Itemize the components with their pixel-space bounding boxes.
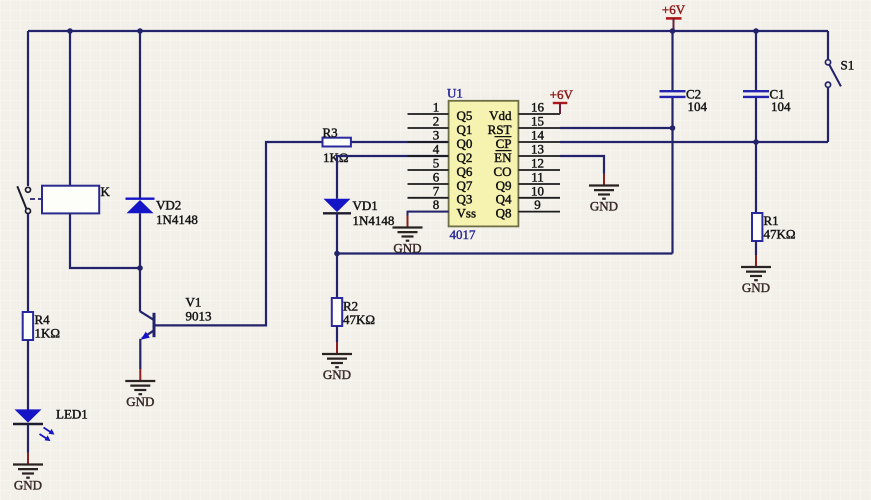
pin 8 bbox=[408, 197, 449, 212]
svg-text:Q2: Q2 bbox=[457, 150, 473, 165]
wire rail to S1 bbox=[827, 31, 829, 60]
wire contact to R4 bbox=[27, 214, 29, 313]
svg-text:16: 16 bbox=[531, 100, 545, 115]
svg-text:47KΩ: 47KΩ bbox=[343, 312, 375, 327]
node rail-C2 bbox=[670, 28, 676, 34]
relay contact switch bbox=[17, 186, 42, 213]
pin 4 bbox=[408, 142, 449, 157]
pin 15 bbox=[518, 114, 560, 129]
wire pin15 RST to C2 bbox=[560, 127, 673, 129]
wire pin14 CP to S1 bbox=[560, 141, 828, 143]
svg-text:13: 13 bbox=[531, 142, 544, 157]
svg-text:Q9: Q9 bbox=[496, 178, 512, 193]
svg-text:U1: U1 bbox=[447, 86, 463, 101]
svg-text:9: 9 bbox=[534, 197, 541, 212]
wire V1 emitter to ground bbox=[139, 339, 141, 369]
wire relay K bottom bbox=[70, 213, 140, 268]
node rail-C1 bbox=[753, 28, 759, 34]
wire pin8 Vss to ground bbox=[408, 212, 449, 216]
ground EN bbox=[589, 174, 619, 214]
wire rail to VD2 bbox=[139, 31, 141, 199]
svg-text:4: 4 bbox=[433, 142, 440, 157]
wire VD2 to node bbox=[139, 213, 141, 268]
power +6V main bbox=[662, 2, 686, 31]
node rail-B bbox=[137, 28, 143, 34]
svg-text:CO: CO bbox=[493, 164, 511, 179]
wire R2 to ground bbox=[336, 326, 338, 342]
svg-text:14: 14 bbox=[531, 128, 545, 143]
svg-text:9013: 9013 bbox=[186, 309, 212, 324]
pin 1 bbox=[408, 100, 449, 115]
wire pin4 to VD1 bbox=[337, 156, 449, 199]
svg-text:CP: CP bbox=[496, 136, 512, 151]
svg-text:Q3: Q3 bbox=[457, 192, 473, 207]
pin 6 bbox=[408, 170, 449, 185]
pin 5 bbox=[408, 156, 449, 171]
svg-text:GND: GND bbox=[126, 394, 154, 409]
capacitor C1 bbox=[743, 31, 791, 142]
wire node to R2 bbox=[336, 254, 338, 299]
ground Vss bbox=[393, 216, 423, 256]
pin 7 bbox=[408, 183, 449, 198]
svg-text:1KΩ: 1KΩ bbox=[35, 325, 61, 340]
svg-text:Q6: Q6 bbox=[457, 164, 473, 179]
ground R1 bbox=[741, 255, 771, 295]
svg-text:VD1: VD1 bbox=[353, 198, 378, 213]
svg-text:Q4: Q4 bbox=[496, 192, 512, 207]
svg-text:+6V: +6V bbox=[550, 87, 574, 102]
wire VD1 to node R2 bbox=[336, 213, 338, 253]
svg-text:Q5: Q5 bbox=[457, 108, 473, 123]
node CP-C1 bbox=[753, 139, 759, 145]
svg-text:1N4148: 1N4148 bbox=[156, 212, 198, 227]
wire R1 to ground bbox=[755, 241, 757, 255]
pin 13 bbox=[518, 142, 560, 157]
resistor R4 bbox=[23, 312, 60, 340]
svg-text:104: 104 bbox=[771, 99, 791, 114]
pin 14 bbox=[518, 128, 560, 143]
svg-text:7: 7 bbox=[433, 183, 440, 198]
node rail-A bbox=[67, 28, 73, 34]
svg-text:12: 12 bbox=[531, 156, 544, 171]
wire left vertical to contact bbox=[27, 31, 29, 186]
svg-text:GND: GND bbox=[742, 280, 770, 295]
switch S1 bbox=[825, 57, 854, 87]
wire top +6V rail bbox=[28, 30, 828, 32]
resistor R3 bbox=[323, 125, 351, 165]
svg-text:Q0: Q0 bbox=[457, 136, 473, 151]
svg-text:1: 1 bbox=[433, 100, 440, 115]
relay K coil bbox=[42, 184, 111, 213]
resistor R2 bbox=[332, 298, 375, 327]
LED LED1 bbox=[13, 407, 88, 442]
pin 9 bbox=[518, 197, 560, 212]
svg-text:Q7: Q7 bbox=[457, 178, 473, 193]
svg-text:+6V: +6V bbox=[662, 2, 686, 17]
svg-text:EN: EN bbox=[494, 150, 512, 165]
wire V1 base to R3 bbox=[154, 142, 323, 325]
wire pin13 EN to ground bbox=[560, 156, 604, 174]
transistor V1 bbox=[140, 295, 212, 340]
svg-text:VD2: VD2 bbox=[156, 198, 181, 213]
pin 10 bbox=[518, 183, 560, 198]
ground V1 bbox=[125, 369, 155, 409]
pin name CP bbox=[495, 136, 512, 151]
svg-text:LED1: LED1 bbox=[56, 407, 88, 422]
pin name EN bbox=[494, 150, 512, 165]
svg-text:5: 5 bbox=[433, 156, 440, 171]
svg-text:Vss: Vss bbox=[457, 205, 477, 220]
power +6V at pin16 bbox=[550, 87, 574, 114]
svg-text:RST: RST bbox=[488, 122, 512, 137]
svg-text:S1: S1 bbox=[841, 57, 855, 72]
svg-text:1N4148: 1N4148 bbox=[353, 213, 395, 228]
svg-text:R3: R3 bbox=[323, 125, 338, 140]
svg-text:GND: GND bbox=[590, 199, 618, 214]
wire C1 node to R1 bbox=[755, 142, 757, 213]
wire R3 to pin3 bbox=[351, 141, 449, 143]
svg-text:4017: 4017 bbox=[450, 227, 477, 242]
svg-text:V1: V1 bbox=[186, 295, 202, 310]
wire LED1 to ground bbox=[27, 425, 29, 453]
pin 16 bbox=[518, 100, 560, 115]
diode VD1 bbox=[323, 198, 394, 228]
ground LED bbox=[13, 453, 43, 493]
svg-text:104: 104 bbox=[688, 99, 708, 114]
capacitor C2 bbox=[660, 31, 708, 254]
pin 11 bbox=[518, 170, 560, 185]
svg-text:2: 2 bbox=[433, 114, 440, 129]
svg-text:11: 11 bbox=[531, 170, 544, 185]
pin 2 bbox=[408, 114, 449, 129]
node R2 top bbox=[334, 251, 340, 257]
pin 3 bbox=[408, 128, 449, 143]
svg-text:K: K bbox=[101, 184, 111, 199]
svg-text:GND: GND bbox=[393, 241, 421, 256]
svg-text:Vdd: Vdd bbox=[489, 108, 512, 123]
IC U1 body bbox=[447, 86, 518, 243]
svg-text:8: 8 bbox=[433, 197, 440, 212]
svg-text:47KΩ: 47KΩ bbox=[764, 227, 796, 242]
pin 12 bbox=[518, 156, 560, 171]
svg-text:6: 6 bbox=[433, 170, 440, 185]
resistor R1 bbox=[752, 213, 796, 242]
wire node to V1 collector bbox=[139, 268, 141, 312]
svg-text:10: 10 bbox=[531, 183, 544, 198]
node collector bbox=[137, 265, 143, 271]
svg-text:Q8: Q8 bbox=[496, 205, 512, 220]
node RST-C2 bbox=[670, 125, 676, 131]
wire rail to relay K bbox=[69, 31, 71, 186]
svg-text:GND: GND bbox=[14, 478, 42, 493]
wire R4 to LED1 bbox=[27, 340, 29, 410]
wire S1 to CP line bbox=[827, 87, 829, 142]
svg-text:15: 15 bbox=[531, 114, 544, 129]
svg-text:GND: GND bbox=[323, 367, 351, 382]
svg-text:3: 3 bbox=[433, 128, 440, 143]
ground R2 bbox=[322, 342, 352, 382]
svg-text:1KΩ: 1KΩ bbox=[323, 150, 349, 165]
wire node to C2 bottom bbox=[337, 252, 673, 254]
svg-text:Q1: Q1 bbox=[457, 122, 473, 137]
diode VD2 bbox=[126, 198, 198, 227]
